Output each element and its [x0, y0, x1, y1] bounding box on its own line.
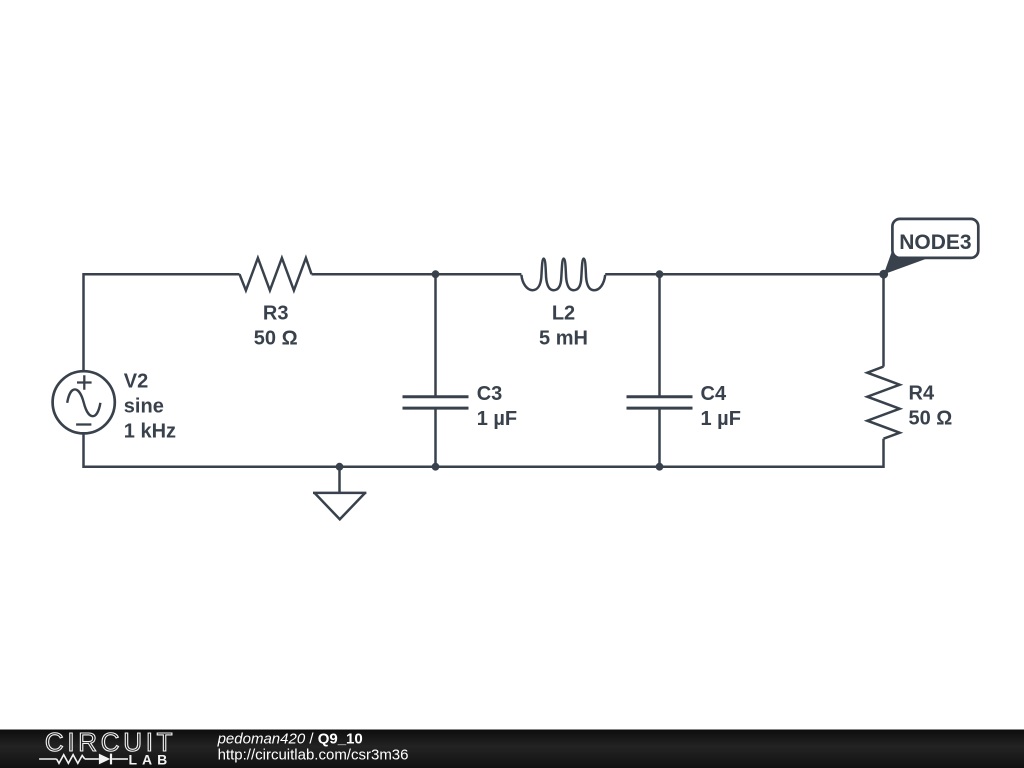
resistor R3 — [240, 258, 312, 290]
svg-text:http://circuitlab.com/csr3m36: http://circuitlab.com/csr3m36 — [218, 747, 409, 764]
junction dot at C4 top — [656, 270, 664, 278]
junction dot at C3 bottom — [432, 463, 440, 471]
wire top: L2 right terminal to C4 junction — [605, 273, 659, 276]
svg-text:1 kHz: 1 kHz — [124, 420, 176, 442]
wire bottom: ground junction to C3 bottom — [340, 465, 436, 468]
svg-text:C3: C3 — [477, 383, 503, 405]
logo wire middle — [85, 758, 99, 760]
svg-text:NODE3: NODE3 — [899, 231, 971, 254]
wire: NODE3 down to R4 top — [882, 274, 885, 366]
logo wire right — [112, 758, 128, 760]
V2 sine waveform — [67, 389, 100, 416]
ground triangle — [315, 493, 366, 519]
wire top: C3 junction to L2 left terminal — [436, 273, 522, 276]
NODE3 flag tail — [884, 251, 927, 274]
junction dot at ground — [336, 463, 344, 471]
wire top: R3 right terminal to C3 junction — [312, 273, 436, 276]
wire: C3 junction down to C3 top plate — [434, 274, 437, 397]
NODE3 flag box — [892, 219, 978, 258]
wire: C3 bottom plate down to bottom wire — [434, 408, 437, 467]
capacitor C3 top plate — [403, 395, 469, 398]
wire: C4 bottom plate down to bottom wire — [658, 408, 661, 467]
junction dot at C4 bottom — [656, 463, 664, 471]
capacitor C4 bottom plate — [627, 407, 693, 410]
wire bottom: C4 bottom to bottom-right corner up to R4 bottom — [660, 439, 884, 467]
svg-text:50 Ω: 50 Ω — [254, 327, 298, 349]
logo diode triangle — [99, 754, 110, 765]
wire top-left: R3 left terminal to top-left corner down to V2 top — [84, 274, 240, 371]
V2 plus sign — [77, 375, 92, 390]
svg-text:LAB: LAB — [129, 752, 173, 768]
voltage source V2 circle — [53, 371, 115, 433]
svg-text:50 Ω: 50 Ω — [909, 407, 953, 429]
logo wire left — [39, 758, 57, 760]
svg-text:C4: C4 — [701, 383, 727, 405]
svg-text:L2: L2 — [552, 302, 575, 324]
svg-text:pedoman420 / Q9_10: pedoman420 / Q9_10 — [217, 731, 363, 748]
capacitor C3 bottom plate — [403, 407, 469, 410]
ground stub wire — [338, 467, 341, 493]
logo resistor zigzag — [57, 755, 85, 764]
node NODE3 dot — [879, 270, 888, 279]
svg-text:1 µF: 1 µF — [477, 408, 517, 430]
resistor R4 — [867, 367, 899, 439]
capacitor C4 top plate — [627, 395, 693, 398]
inductor L2 — [521, 259, 605, 291]
wire bottom: C3 bottom to C4 bottom — [436, 465, 660, 468]
wire: C4 junction down to C4 top plate — [658, 274, 661, 397]
svg-text:R4: R4 — [909, 382, 935, 404]
logo diode bar — [110, 754, 112, 765]
ground horizontal bar — [313, 492, 366, 495]
footer bar — [0, 730, 1024, 768]
svg-text:sine: sine — [124, 395, 164, 417]
svg-text:5 mH: 5 mH — [539, 327, 588, 349]
svg-text:R3: R3 — [263, 302, 289, 324]
wire top: C4 junction to NODE3 — [660, 273, 884, 276]
svg-text:V2: V2 — [124, 370, 148, 392]
svg-text:1 µF: 1 µF — [701, 408, 741, 430]
wire V2 bottom to bottom-left corner to ground junction — [84, 433, 340, 466]
junction dot at C3 top — [432, 270, 440, 278]
V2 minus sign — [76, 423, 91, 425]
